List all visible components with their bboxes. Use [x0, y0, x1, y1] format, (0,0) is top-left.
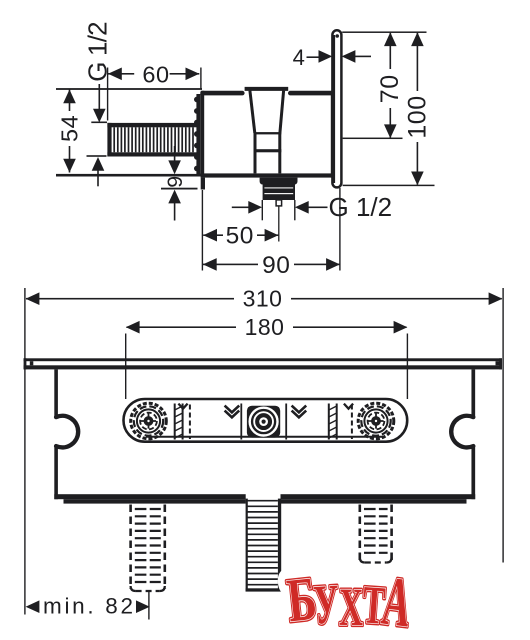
wall plate: [332, 30, 342, 187]
label G 1/2 pipe thread: [82, 22, 112, 123]
svg-text:70: 70: [376, 74, 404, 103]
extension line plate bottom: [161, 188, 198, 190]
outlet extension lines: [262, 200, 263, 220]
extension line body bottom: [56, 174, 201, 177]
dimension 310: [26, 285, 503, 311]
knurled union nut: [194, 94, 201, 174]
dimension 100: [404, 32, 432, 185]
dimension min. 82: [26, 591, 150, 620]
svg-text:G 1/2: G 1/2: [329, 192, 393, 222]
box bottom edge: [54, 494, 245, 499]
svg-text:310: 310: [243, 285, 283, 311]
svg-text:180: 180: [245, 314, 285, 340]
small chevron right: [344, 404, 353, 409]
right extension line 310: [502, 288, 503, 563]
center port: [247, 406, 280, 438]
svg-text:100: 100: [404, 95, 432, 138]
extension line plate top: [342, 31, 426, 33]
svg-text:50: 50: [226, 223, 254, 250]
right side notch: [451, 416, 473, 448]
mounting box right edge: [471, 369, 475, 416]
left port: [131, 403, 167, 439]
right supply pipe (dashed threaded): [360, 505, 392, 563]
chevron detail right-center: [292, 406, 307, 418]
extension line 100 bottom: [343, 185, 435, 187]
right port: [358, 403, 394, 439]
divider hatch strip A: [175, 404, 190, 440]
svg-text:У: У: [312, 573, 341, 637]
svg-text:60: 60: [142, 61, 169, 87]
watermark: [284, 563, 415, 640]
left supply pipe (dashed threaded): [131, 505, 165, 592]
svg-text:4: 4: [293, 45, 305, 70]
dimension 54: [56, 90, 82, 173]
box bottom lip: [64, 499, 246, 503]
divider lines near center flange: [241, 404, 286, 440]
left side notch: [56, 416, 78, 448]
chevron detail left-center: [225, 406, 240, 418]
svg-text:9: 9: [163, 176, 187, 188]
valve body: [201, 91, 335, 178]
cartridge funnel: [245, 89, 289, 173]
pipe diameter lower arrow: [92, 157, 105, 186]
svg-text:90: 90: [262, 252, 290, 279]
dimension 180: [126, 314, 408, 340]
left extension line 310/min82: [24, 288, 25, 615]
extension line right of 90: [339, 188, 340, 271]
dimension 9: [163, 146, 187, 221]
svg-text:Х: Х: [339, 577, 364, 637]
svg-text:54: 54: [56, 115, 82, 142]
center supply pipe (solid threaded): [246, 499, 282, 592]
svg-text:min. 82: min. 82: [43, 593, 136, 618]
pipe bottom extension line: [87, 155, 107, 157]
body bottom-left step: [201, 178, 205, 190]
dimension 70: [376, 32, 404, 138]
extension line body top: [56, 88, 202, 90]
mounting plate: [24, 358, 502, 369]
threaded supply pipe: [107, 123, 197, 157]
extension line 70 bottom: [343, 138, 403, 140]
dimension 50: [203, 223, 278, 250]
mounting box left edge: [54, 369, 58, 417]
small chevron left: [178, 404, 187, 409]
pipe top extension line: [91, 122, 107, 124]
label G 1/2 outlet: [232, 192, 392, 222]
extension line left of 50/90: [202, 190, 203, 271]
dimension 60: [107, 61, 202, 120]
outlet port with nut: [260, 178, 298, 206]
functional unit bar: [124, 399, 408, 442]
extension lines 180: [125, 334, 126, 400]
outlet centerline: [278, 206, 279, 241]
dimension 4: [293, 45, 371, 70]
divider hatch strip B: [329, 404, 352, 440]
dimension 90: [203, 252, 340, 279]
